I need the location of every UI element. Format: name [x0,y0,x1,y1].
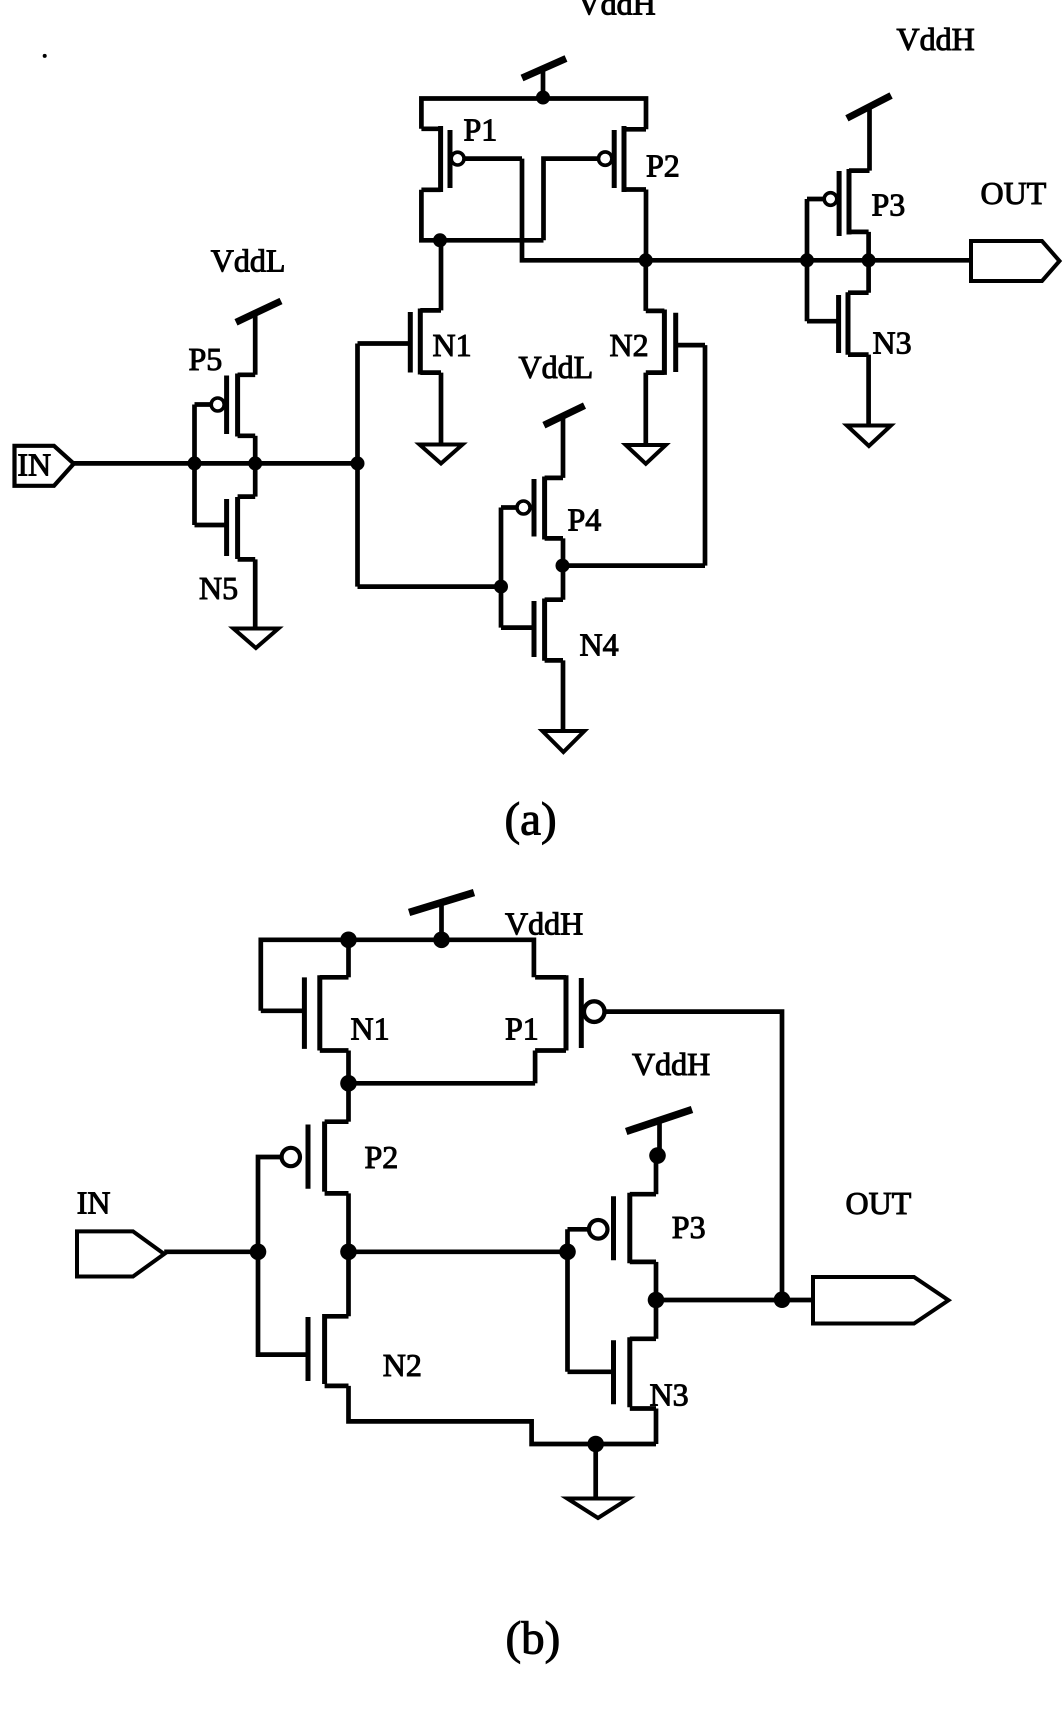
svg-text:VddH: VddH [578,0,656,22]
svg-text:VddH: VddH [897,21,975,57]
svg-text:P2: P2 [365,1139,399,1175]
svg-text:N3: N3 [873,325,912,361]
svg-text:P1: P1 [464,112,498,148]
svg-text:IN: IN [17,447,51,483]
svg-text:IN: IN [77,1185,111,1221]
svg-text:N1: N1 [433,327,472,363]
svg-text:VddH: VddH [632,1046,710,1082]
svg-text:OUT: OUT [846,1185,912,1221]
svg-text:P2: P2 [646,148,680,184]
svg-text:VddL: VddL [519,349,594,385]
svg-text:VddL: VddL [211,243,286,279]
svg-text:P3: P3 [872,186,906,222]
svg-text:N2: N2 [383,1347,422,1383]
svg-text:N3: N3 [650,1377,689,1413]
svg-text:(b): (b) [506,1613,561,1665]
svg-text:N1: N1 [351,1011,390,1047]
svg-text:P4: P4 [568,501,602,537]
svg-text:(a): (a) [505,794,557,846]
svg-text:P5: P5 [189,341,223,377]
svg-text:N5: N5 [199,570,238,606]
svg-text:P1: P1 [505,1010,539,1046]
svg-text:VddH: VddH [505,906,583,942]
svg-text:N4: N4 [580,626,619,662]
svg-text:OUT: OUT [981,175,1047,211]
svg-text:N2: N2 [610,327,649,363]
svg-text:P3: P3 [672,1209,706,1245]
